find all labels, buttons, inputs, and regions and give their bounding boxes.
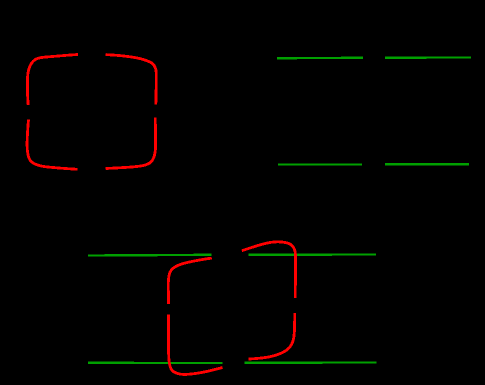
wire F1 bottom-right arc bbox=[106, 118, 156, 169]
wire F2 upper line left segment bbox=[277, 57, 363, 60]
node F2: green line pair (top-right) with gaps bbox=[277, 58, 471, 165]
wire F1 bottom-left arc bbox=[27, 120, 77, 170]
wire F1 top-left arc bbox=[27, 55, 78, 106]
wire F2 lower line left segment bbox=[278, 163, 362, 165]
node F1: red ring (top-left), four arcs with crossing gaps bbox=[27, 55, 156, 170]
wire F3 upper line left segment bbox=[88, 254, 212, 257]
wire F2 lower line right segment bbox=[385, 163, 469, 165]
wire F3R lower-right arc bbox=[249, 313, 295, 359]
wire F3 lower line right segment bbox=[244, 361, 376, 364]
wire F3R upper-left arc bbox=[168, 258, 212, 304]
wire F3R lower-left arc bbox=[168, 315, 222, 375]
wire F1 top-right arc bbox=[106, 55, 157, 105]
wire F3 upper line right segment bbox=[249, 253, 376, 256]
node F3R: red twisted ring (bottom), four arcs with crossing gaps bbox=[168, 242, 295, 375]
wire F3 lower line left segment bbox=[88, 362, 223, 365]
wire F3R upper-right arc bbox=[242, 242, 296, 298]
wire F2 upper line right segment bbox=[385, 56, 471, 59]
node F3: green line pair (bottom) with gaps bbox=[88, 255, 377, 364]
